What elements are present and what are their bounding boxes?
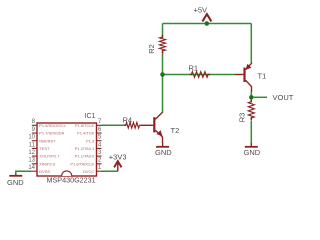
- svg-text:GND: GND: [155, 148, 172, 157]
- wire R3 bottom to ground: [250, 121, 252, 143]
- svg-text:GND: GND: [7, 178, 24, 187]
- IC1 right pin numbers 7-1: [98, 119, 102, 171]
- power +3V3 label: [109, 153, 127, 162]
- svg-text:DVCC: DVCC: [83, 169, 94, 174]
- ground label under R3: [244, 148, 261, 157]
- svg-text:P1.0/TA0CLK: P1.0/TA0CLK: [70, 161, 94, 166]
- svg-text:IC1: IC1: [85, 113, 96, 120]
- svg-text:XIN/P2.6: XIN/P2.6: [39, 161, 56, 166]
- ground label bottom-left: [7, 178, 24, 187]
- svg-text:11: 11: [29, 142, 36, 148]
- svg-text:MSP430G2231: MSP430G2231: [47, 176, 96, 185]
- node VOUT junction dot: [249, 95, 254, 100]
- ground under R3: [245, 143, 258, 147]
- resistor R1 label: [189, 64, 199, 73]
- resistor R4 label: [123, 115, 133, 124]
- svg-text:R2: R2: [147, 44, 156, 54]
- svg-text:P1.5/TCLK: P1.5/TCLK: [75, 123, 95, 128]
- svg-text:T2: T2: [171, 126, 180, 135]
- wire IC pin7 to R4: [102, 124, 127, 126]
- resistor R3 label: [238, 113, 247, 123]
- svg-text:R3: R3: [238, 113, 247, 123]
- svg-text:P1.4/TCK: P1.4/TCK: [77, 131, 94, 136]
- wire top rail from R2 top corner to T1 emitter corner: [163, 23, 252, 25]
- svg-text:+3V3: +3V3: [109, 153, 127, 162]
- power +5V label: [194, 5, 208, 14]
- svg-text:VOUT: VOUT: [273, 93, 294, 102]
- IC1 left pin numbers 8-14: [28, 119, 35, 171]
- IC1 left pin names: [39, 123, 66, 174]
- IC1 right pin names: [70, 123, 95, 174]
- IC1 value MSP430G2231: [47, 176, 96, 185]
- wire node VOUT down to R3: [250, 97, 252, 101]
- IC1 right pin stubs: [97, 125, 102, 171]
- svg-text:R4: R4: [123, 115, 133, 124]
- svg-text:P1.3: P1.3: [86, 138, 95, 143]
- wire right vertical from rail down to T1 emitter: [250, 24, 252, 63]
- power +3V3 symbol arrow: [114, 161, 121, 171]
- svg-text:TEST: TEST: [39, 146, 50, 151]
- svg-text:P1.6/SDO/SCL: P1.6/SDO/SCL: [39, 123, 66, 128]
- wire R4 to T2 base: [140, 124, 149, 126]
- wire left vertical from rail down to R2: [162, 24, 164, 37]
- ground label under T2: [155, 148, 172, 157]
- wire R2 bottom to node A: [162, 52, 164, 75]
- svg-text:DVSS: DVSS: [39, 169, 50, 174]
- IC1 left pin stubs: [32, 125, 37, 171]
- wire T1 collector to node VOUT: [250, 92, 252, 97]
- svg-text:P1.1/TA0.0: P1.1/TA0.0: [75, 154, 95, 159]
- wire IC pin14 to left ground: [16, 171, 32, 173]
- svg-text:GND: GND: [244, 148, 261, 157]
- ground under T2: [156, 143, 169, 147]
- label VOUT: [273, 93, 294, 102]
- op IC1 MSP430G2231 body: [37, 123, 97, 176]
- wire IC pin1 to +3V3: [102, 170, 118, 172]
- transistor T2 label: [171, 126, 180, 135]
- svg-text:XOUT/P2.7: XOUT/P2.7: [39, 154, 59, 159]
- svg-text:T1: T1: [258, 72, 267, 81]
- resistor R1: [190, 72, 211, 78]
- svg-text:13: 13: [28, 158, 35, 164]
- node +5V junction dot: [205, 21, 210, 26]
- power +5V symbol arrow: [202, 14, 211, 21]
- transistor T1 label: [258, 72, 267, 81]
- IC1 label: [85, 113, 96, 120]
- svg-text:P1.2/TA0.1: P1.2/TA0.1: [75, 146, 94, 151]
- svg-text:NMI/RST: NMI/RST: [39, 138, 56, 143]
- transistor T1 (PNP): [235, 63, 252, 93]
- transistor T2 (NPN): [153, 112, 162, 144]
- resistor R3: [248, 100, 254, 121]
- resistor R2: [160, 35, 166, 53]
- wire node A to R1 and on to T1 base: [163, 74, 236, 76]
- ground at IC pin14 (left): [9, 174, 22, 176]
- node A junction dot: [160, 72, 165, 77]
- wire node A down to T2 collector: [162, 75, 164, 112]
- resistor R4: [124, 123, 140, 129]
- svg-text:+5V: +5V: [194, 5, 208, 14]
- svg-text:P1.7/SDI/SDA: P1.7/SDI/SDA: [39, 131, 64, 136]
- wire node VOUT to VOUT label stub: [251, 96, 267, 98]
- svg-text:14: 14: [28, 165, 35, 171]
- svg-text:R1: R1: [189, 64, 199, 73]
- svg-text:12: 12: [28, 150, 35, 156]
- svg-text:10: 10: [28, 135, 35, 141]
- resistor R2 label: [147, 44, 156, 54]
